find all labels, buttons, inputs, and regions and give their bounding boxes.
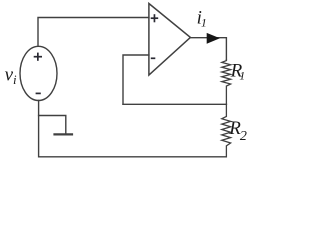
svg-text:2: 2 [240, 129, 247, 144]
svg-text:1: 1 [239, 69, 245, 83]
svg-text:i: i [13, 72, 17, 87]
svg-text:1: 1 [201, 15, 207, 29]
